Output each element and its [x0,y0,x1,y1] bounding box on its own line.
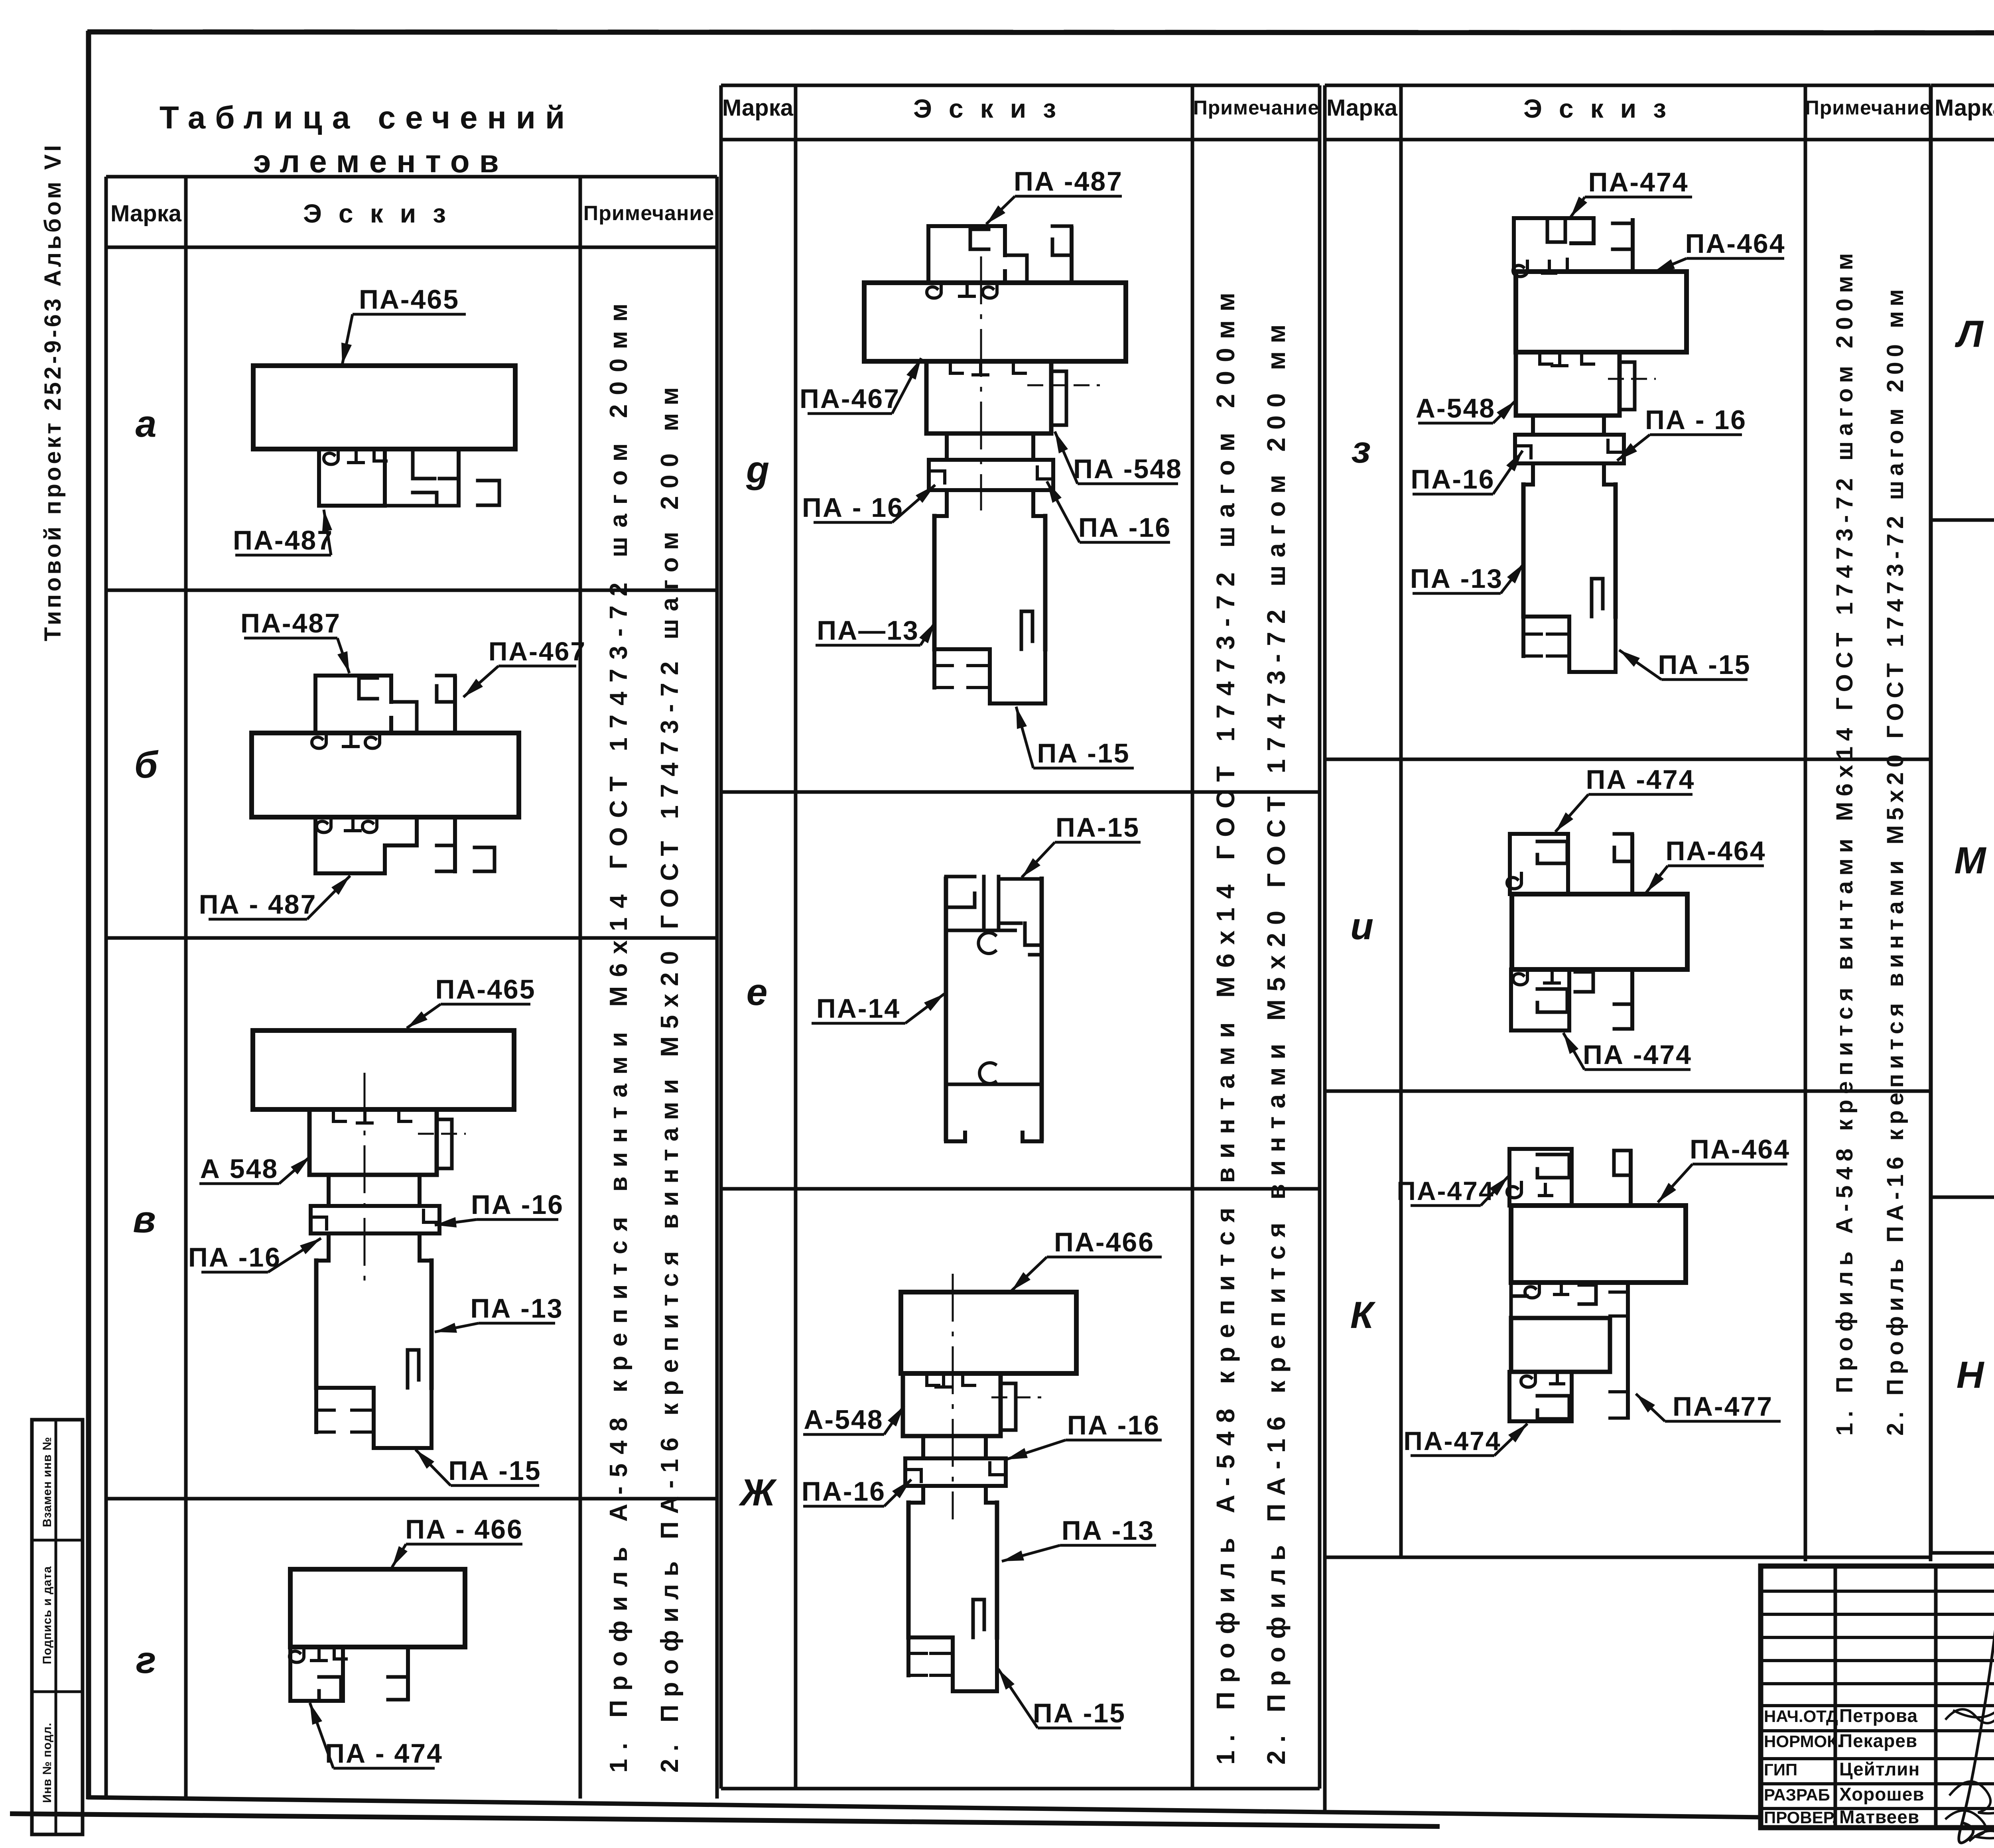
callout PA-487 top ПА-487 [240,608,349,673]
sketch k: PA-464 main bar [1511,1206,1686,1283]
svg-text:е: е [747,971,768,1013]
left bottom strip boxes [32,1420,83,1834]
svg-text:Хорошев: Хорошев [1839,1784,1925,1805]
svg-text:ПА-474: ПА-474 [1403,1426,1501,1456]
callout PA-15 ПА -15 [416,1450,542,1486]
svg-text:Пекарев: Пекарев [1839,1730,1917,1751]
svg-text:ПА - 466: ПА - 466 [405,1514,523,1545]
svg-text:А-548: А-548 [804,1405,883,1435]
svg-text:ПА -548: ПА -548 [1073,454,1182,484]
svg-text:ПА - 474: ПА - 474 [325,1738,443,1769]
callout PA-16 left ПА-16 [802,1476,911,1507]
svg-text:Таблица сечений: Таблица сечений [160,100,574,135]
svg-text:Эскиз: Эскиз [1523,94,1683,123]
svg-text:Петрова: Петрова [1839,1705,1918,1726]
callout PA-13 ПА -13 [1410,563,1524,594]
svg-text:ПА-464: ПА-464 [1690,1134,1790,1164]
PA-13 box [316,1261,432,1388]
neck 2 [327,1233,331,1261]
svg-text:ПА -13: ПА -13 [470,1293,563,1324]
svg-text:ПА-466: ПА-466 [1054,1227,1155,1257]
svg-text:ПА - 487: ПА - 487 [199,889,317,920]
svg-text:ПРОВЕР.: ПРОВЕР. [1764,1808,1836,1827]
svg-text:г: г [136,1639,156,1681]
svg-text:ПА -487: ПА -487 [1014,166,1123,197]
svg-text:ПА-474: ПА-474 [1397,1176,1494,1206]
callout PA-474 bottom ПА-474 [1403,1424,1527,1456]
A-548 profile box [903,1373,1001,1436]
sketch a: PA-487 profile cluster below [319,449,385,506]
svg-text:М: М [1954,839,1986,882]
neck [945,433,949,460]
callout PA-16 right ПА -16 [1047,481,1171,543]
svg-text:ПА - 16: ПА - 16 [1645,405,1747,435]
callout A-548 А-548 [1416,393,1515,424]
svg-text:ПА -474: ПА -474 [1583,1040,1692,1070]
svg-text:1. Профиль А-548 крепится винт: 1. Профиль А-548 крепится винтами М6х14 … [605,294,632,1773]
callout PA-474 top ПА-474 [1397,1176,1508,1206]
svg-text:ПА -15: ПА -15 [1658,650,1751,680]
svg-text:ПА-464: ПА-464 [1665,836,1766,866]
svg-text:ПА-14: ПА-14 [816,993,900,1024]
callout PA-16 right ПА -16 [1006,1410,1162,1460]
svg-text:ПА-477: ПА-477 [1673,1391,1773,1422]
callout PA-464 ПА-464 [1658,1134,1790,1202]
callout PA-474 ПА-474 [1570,167,1692,217]
neck [921,1436,925,1458]
svg-text:1. Профиль А-548 крепится винт: 1. Профиль А-548 крепится винтами М6х14 … [1832,248,1858,1436]
sketch z: PA-474 top cluster [1514,218,1594,272]
table 2 grid [721,84,1320,87]
svg-text:ПА -474: ПА -474 [1586,764,1695,795]
svg-text:б: б [134,744,159,786]
neck 2 [921,1486,925,1503]
sketch g: PA-474 cluster [290,1647,343,1701]
PA-16 connector box [311,1206,439,1233]
svg-text:1. Профиль А-548 крепится винт: 1. Профиль А-548 крепится винтами М6х14 … [1211,284,1240,1765]
callout PA-16 left ПА - 16 [802,485,935,523]
A-548 profile box [926,361,1051,433]
sketch b: PA-465 main bar [252,733,519,817]
svg-text:Марка: Марка [1935,95,1994,121]
svg-text:ПА -15: ПА -15 [448,1456,541,1486]
svg-text:ПА-487: ПА-487 [233,525,333,556]
callout PA-13 ПА—13 [816,615,935,646]
svg-text:НАЧ.ОТД: НАЧ.ОТД [1764,1707,1838,1726]
callout PA-15 ПА -15 [1016,707,1134,768]
neck 2 [1531,463,1535,485]
callout PA-13 ПА -13 [435,1293,564,1333]
svg-text:Взамен инв №: Взамен инв № [41,1437,54,1527]
sketch a: profile PA-465 main bar [253,366,515,449]
sketch k: PA-474 top cluster [1509,1149,1572,1206]
svg-text:Примечание: Примечание [583,202,715,225]
callout PA-16 left ПА-16 [1411,451,1523,495]
table 4 grid [1931,84,1994,87]
callout PA-15 ПА -15 [1619,650,1751,680]
svg-text:Подпись и дата: Подпись и дата [41,1566,54,1664]
PA-13 box [908,1503,997,1637]
svg-text:ПА-16: ПА-16 [1411,464,1495,495]
svg-text:ПА-474: ПА-474 [1588,167,1689,197]
sketch i: PA-474 bottom cluster [1511,969,1569,1030]
svg-text:А 548: А 548 [200,1154,278,1184]
callout PA-474 bottom ПА -474 [1563,1033,1692,1070]
callout PA-15 ПА-15 [1022,812,1141,877]
PA-15 bottom cluster [316,1388,432,1448]
PA-15 bottom cluster [1523,617,1616,672]
svg-text:ПА-487: ПА-487 [240,608,341,638]
callout PA-13 ПА -13 [1002,1515,1156,1561]
svg-text:Л: Л [1955,313,1984,355]
svg-text:ПА -13: ПА -13 [1062,1515,1155,1546]
table 3 grid [1325,84,1931,87]
callout A-548 А-548 [803,1405,904,1435]
signature area rows [1761,1590,1994,1593]
neck [327,1175,331,1206]
callout PA-465 ПА-465 [341,284,466,365]
svg-text:2. Профиль ПА-16 крепится вин: 2. Профиль ПА-16 крепится винтами М5х20 … [1882,284,1908,1436]
svg-text:ПА-465: ПА-465 [435,974,536,1005]
svg-text:ПА-465: ПА-465 [359,284,459,315]
PA-13 box [934,516,1045,649]
callout PA-548 ПА -548 [1055,431,1182,484]
svg-text:а: а [136,403,157,445]
svg-text:з: з [1352,429,1371,471]
svg-text:ГИП: ГИП [1764,1760,1797,1779]
svg-text:ПА-467: ПА-467 [800,384,900,414]
svg-text:ПА-464: ПА-464 [1685,229,1785,259]
neck [1531,416,1535,435]
svg-text:элементов: элементов [253,144,508,179]
svg-text:и: и [1350,905,1373,948]
svg-text:Н: Н [1957,1354,1985,1396]
title block verticals [1834,1566,1837,1828]
neck 2 [945,490,949,516]
sketch d: PA-465 main bar [864,283,1126,361]
sketch v: PA-465 main bar [253,1030,514,1109]
title block outer [1761,1566,1994,1828]
svg-text:К: К [1350,1294,1376,1336]
callout PA-16 right ПА -16 [435,1190,564,1227]
A-548 profile box [1516,352,1620,416]
sketch g: PA-466 main bar [290,1569,465,1647]
svg-text:Марка: Марка [722,95,794,121]
sketch d: PA-487 top cluster [928,226,1005,283]
callout PA-465 ПА-465 [407,974,536,1028]
svg-text:2. Профиль ПА-16 крепится вин: 2. Профиль ПА-16 крепится винтами М5х20 … [1262,317,1291,1765]
sketch k: PA-474 bottom cluster [1509,1372,1572,1421]
callout PA-487 bottom ПА - 487 [199,876,350,920]
sketch e: PA-14 profile [944,877,948,1141]
callout PA-14 ПА-14 [812,993,944,1024]
svg-text:РАЗРАБ: РАЗРАБ [1764,1785,1830,1804]
svg-text:А-548: А-548 [1416,393,1495,424]
PA-15 bottom cluster [934,649,1045,703]
callout PA-15 ПА -15 [998,1669,1126,1728]
svg-text:2. Профиль ПА-16 крепится вин: 2. Профиль ПА-16 крепится винтами М5х20 … [656,380,684,1773]
callout PA-487 ПА-487 [233,510,333,556]
svg-text:Матвеев: Матвеев [1839,1807,1919,1827]
svg-text:g: g [746,449,769,491]
callout PA-466 ПА - 466 [392,1514,523,1567]
signatures squiggles [1946,1709,1994,1723]
table 1 grid [106,175,717,179]
sketch z: PA-464 main bar [1516,272,1687,352]
svg-text:НОРМОК.: НОРМОК. [1764,1732,1842,1751]
callout PA-467 ПА-467 [463,636,586,697]
PA-16 connector box [905,1458,1006,1486]
svg-text:Марка: Марка [110,201,182,227]
svg-text:Примечание: Примечание [1193,97,1319,119]
svg-text:ПА -13: ПА -13 [1410,563,1503,594]
sketch k: middle hooks [1511,1283,1527,1318]
PA-15 bottom cluster [908,1637,997,1691]
sketch i: PA-464 main bar [1512,894,1687,969]
svg-text:ПА-15: ПА-15 [1056,812,1140,843]
callout PA-466 ПА-466 [1011,1227,1162,1291]
callout PA-487 ПА -487 [986,166,1123,224]
sketch i: PA-474 top cluster [1510,834,1568,894]
callout A-548 А 548 [199,1154,310,1184]
svg-text:Марка: Марка [1326,95,1398,121]
callout PA-474 top ПА -474 [1555,764,1695,832]
svg-text:Цейтлин: Цейтлин [1839,1759,1920,1779]
PA-13 box [1523,485,1616,617]
svg-text:ПА-467: ПА-467 [489,636,586,666]
callout PA-16 left ПА -16 [188,1238,321,1273]
callout PA-467 ПА-467 [800,358,921,414]
A-548 profile box [309,1109,437,1175]
svg-text:ПА - 16: ПА - 16 [802,493,904,523]
sketch zh: PA-466 main bar [901,1292,1076,1373]
svg-text:Примечание: Примечание [1805,97,1931,119]
svg-text:ПА -16: ПА -16 [471,1190,564,1220]
svg-text:Эскиз: Эскиз [303,199,463,228]
svg-text:Типовой проект 252-9-63 Альбо: Типовой проект 252-9-63 Альбом VI [40,142,66,641]
svg-text:ПА -15: ПА -15 [1033,1698,1126,1728]
svg-text:в: в [133,1198,156,1241]
svg-text:ПА -16: ПА -16 [188,1242,281,1273]
sketch b: PA-487 top cluster [315,676,391,733]
svg-text:Инв № подл.: Инв № подл. [41,1722,54,1803]
sketch k: PA-477 second bar [1511,1318,1610,1372]
svg-text:ПА -16: ПА -16 [1078,512,1171,543]
callout PA-477 ПА-477 [1636,1391,1781,1422]
PA-16 connector box [1515,435,1624,463]
svg-text:ПА -16: ПА -16 [1067,1410,1160,1440]
sheet frame [87,32,1994,33]
PA-16 connector box [929,460,1053,490]
svg-text:ПА—13: ПА—13 [817,615,919,646]
callout PA-464 ПА-464 [1646,836,1766,892]
svg-text:Эскиз: Эскиз [913,94,1073,123]
callout PA-464 ПА-464 [1653,229,1786,272]
callout PA-16 right ПА - 16 [1617,405,1747,461]
svg-text:Ж: Ж [739,1472,777,1514]
svg-text:ПА -15: ПА -15 [1037,738,1130,768]
svg-text:ПА-16: ПА-16 [802,1476,886,1507]
callout PA-474 ПА - 474 [310,1703,443,1769]
sketch b: PA-487 bottom cluster [315,817,417,873]
